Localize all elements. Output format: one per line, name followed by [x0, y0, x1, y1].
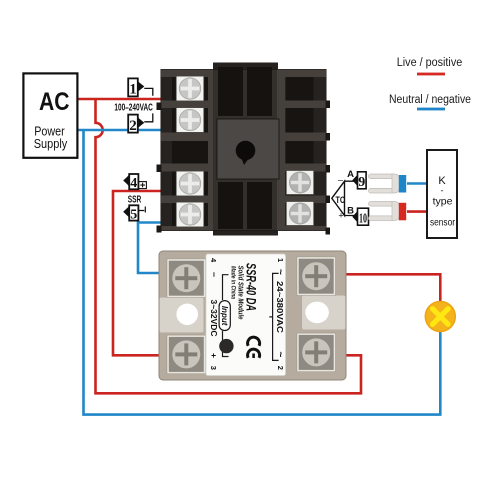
svg-text:Live / positive: Live / positive [397, 57, 463, 69]
svg-text:sensor: sensor [430, 217, 455, 229]
temperature controller rear panel [157, 63, 331, 236]
left edge tabs [157, 103, 162, 233]
wire: SSR AC terminal 1 to heater [334, 274, 440, 303]
wire: controller terminal 5 to SSR input - [138, 223, 172, 274]
right strip rails [277, 70, 326, 231]
center panel with shaft [217, 119, 279, 179]
SSR left dimension bracket [223, 275, 229, 357]
left strip rails [161, 70, 213, 231]
svg-text:~: ~ [275, 269, 286, 275]
svg-text:Input: Input [220, 306, 229, 326]
screw terminal 2 [176, 108, 204, 133]
K-type sensor box [427, 150, 457, 238]
center top recesses [218, 67, 243, 116]
svg-text:+: + [338, 211, 343, 221]
SSR CE mark [248, 337, 260, 346]
controller center housing column [213, 63, 278, 236]
terminal marker 9 [352, 172, 366, 190]
svg-text:9: 9 [358, 175, 365, 190]
wire: neutral branch from node (81.5,130) down and along bottom to heater return [84, 130, 441, 415]
svg-text:A: A [347, 169, 354, 180]
heater load [425, 302, 455, 332]
SSR module [159, 251, 346, 380]
wire: controller terminal 4 to SSR input + [113, 191, 172, 355]
svg-text:SSR: SSR [128, 193, 142, 205]
SSR terminal screw 2 (AC) [297, 333, 336, 372]
svg-text:–: – [338, 175, 343, 185]
svg-text:Neutral / negative: Neutral / negative [389, 94, 471, 106]
right terminal strip background [277, 70, 326, 231]
wire: neutral from AC supply to controller terminal 2 with hop over live branch [77, 129, 164, 132]
right edge tabs [326, 101, 331, 235]
svg-text:10: 10 [359, 211, 367, 226]
blue sleeve of sensor wire [399, 175, 406, 193]
center bottom recesses [218, 182, 243, 229]
terminal marker 2 [128, 113, 153, 133]
svg-text:type: type [433, 196, 453, 208]
thermocouple bracket TC [332, 169, 355, 221]
terminal marker 1 [128, 78, 153, 97]
svg-text:5: 5 [130, 207, 137, 222]
sensor wire positive (red) [407, 210, 428, 213]
sensor wire negative (blue) [407, 182, 428, 185]
legend live / positive [397, 57, 463, 76]
svg-text:Made in China: Made in China [229, 266, 236, 299]
svg-text:Supply: Supply [34, 136, 68, 151]
screw terminal 9 [286, 171, 313, 195]
SSR Input pill [219, 301, 230, 331]
spade connector B (to terminal 10) [369, 202, 400, 221]
screw terminal 1 [176, 76, 204, 101]
SSR right mounting boss [302, 296, 346, 330]
svg-text:3: 3 [209, 366, 218, 370]
red sleeve of sensor wire [399, 203, 406, 221]
SSR LED dot [219, 339, 233, 353]
svg-text:100–240VAC: 100–240VAC [114, 101, 153, 113]
svg-text:3~32VDC: 3~32VDC [209, 300, 219, 337]
screw terminal 10 [286, 202, 313, 226]
svg-text:B: B [347, 206, 354, 217]
SSR base plate [159, 251, 346, 380]
svg-text:–: – [210, 272, 220, 277]
SSR terminal screw 1 (AC) [297, 257, 336, 296]
terminal marker 5 with - [123, 205, 145, 222]
left terminal strip background [161, 70, 213, 231]
SSR right dimension bracket [269, 273, 278, 360]
svg-text:Solid State Module: Solid State Module [237, 266, 246, 320]
svg-text:~: ~ [275, 352, 286, 358]
svg-text:1: 1 [276, 258, 285, 262]
svg-text:2: 2 [129, 118, 137, 134]
screw terminal 5 [176, 202, 204, 227]
right dark cells [286, 77, 314, 226]
terminal marker 4 with + [123, 174, 146, 191]
spade connector A (to terminal 9) [369, 174, 400, 193]
wire: live branch from node (96,99) down and along bottom to SSR AC terminal 2 [96, 99, 362, 393]
screw terminal 4 [176, 171, 204, 196]
legend neutral / negative [389, 94, 471, 110]
svg-text:4: 4 [130, 176, 137, 191]
controller main body [161, 70, 326, 231]
SSR left mounting boss [160, 298, 204, 333]
svg-text:+: + [209, 353, 219, 358]
SSR label [206, 254, 286, 376]
svg-text:1: 1 [129, 82, 137, 98]
wire: live from AC supply to controller terminal 1 [77, 98, 164, 101]
svg-text:TC: TC [336, 195, 346, 206]
svg-text:24~380VAC: 24~380VAC [275, 281, 285, 333]
left dark cells [172, 77, 208, 226]
svg-text:AC: AC [39, 88, 70, 116]
svg-text:2: 2 [276, 366, 285, 370]
AC power supply box [23, 73, 77, 157]
svg-text:-: - [441, 186, 444, 196]
SSR terminal screw 3 (DC+) [167, 335, 206, 374]
terminal marker 10 [352, 208, 368, 226]
SSR terminal screw 4 (DC-) [167, 259, 206, 298]
